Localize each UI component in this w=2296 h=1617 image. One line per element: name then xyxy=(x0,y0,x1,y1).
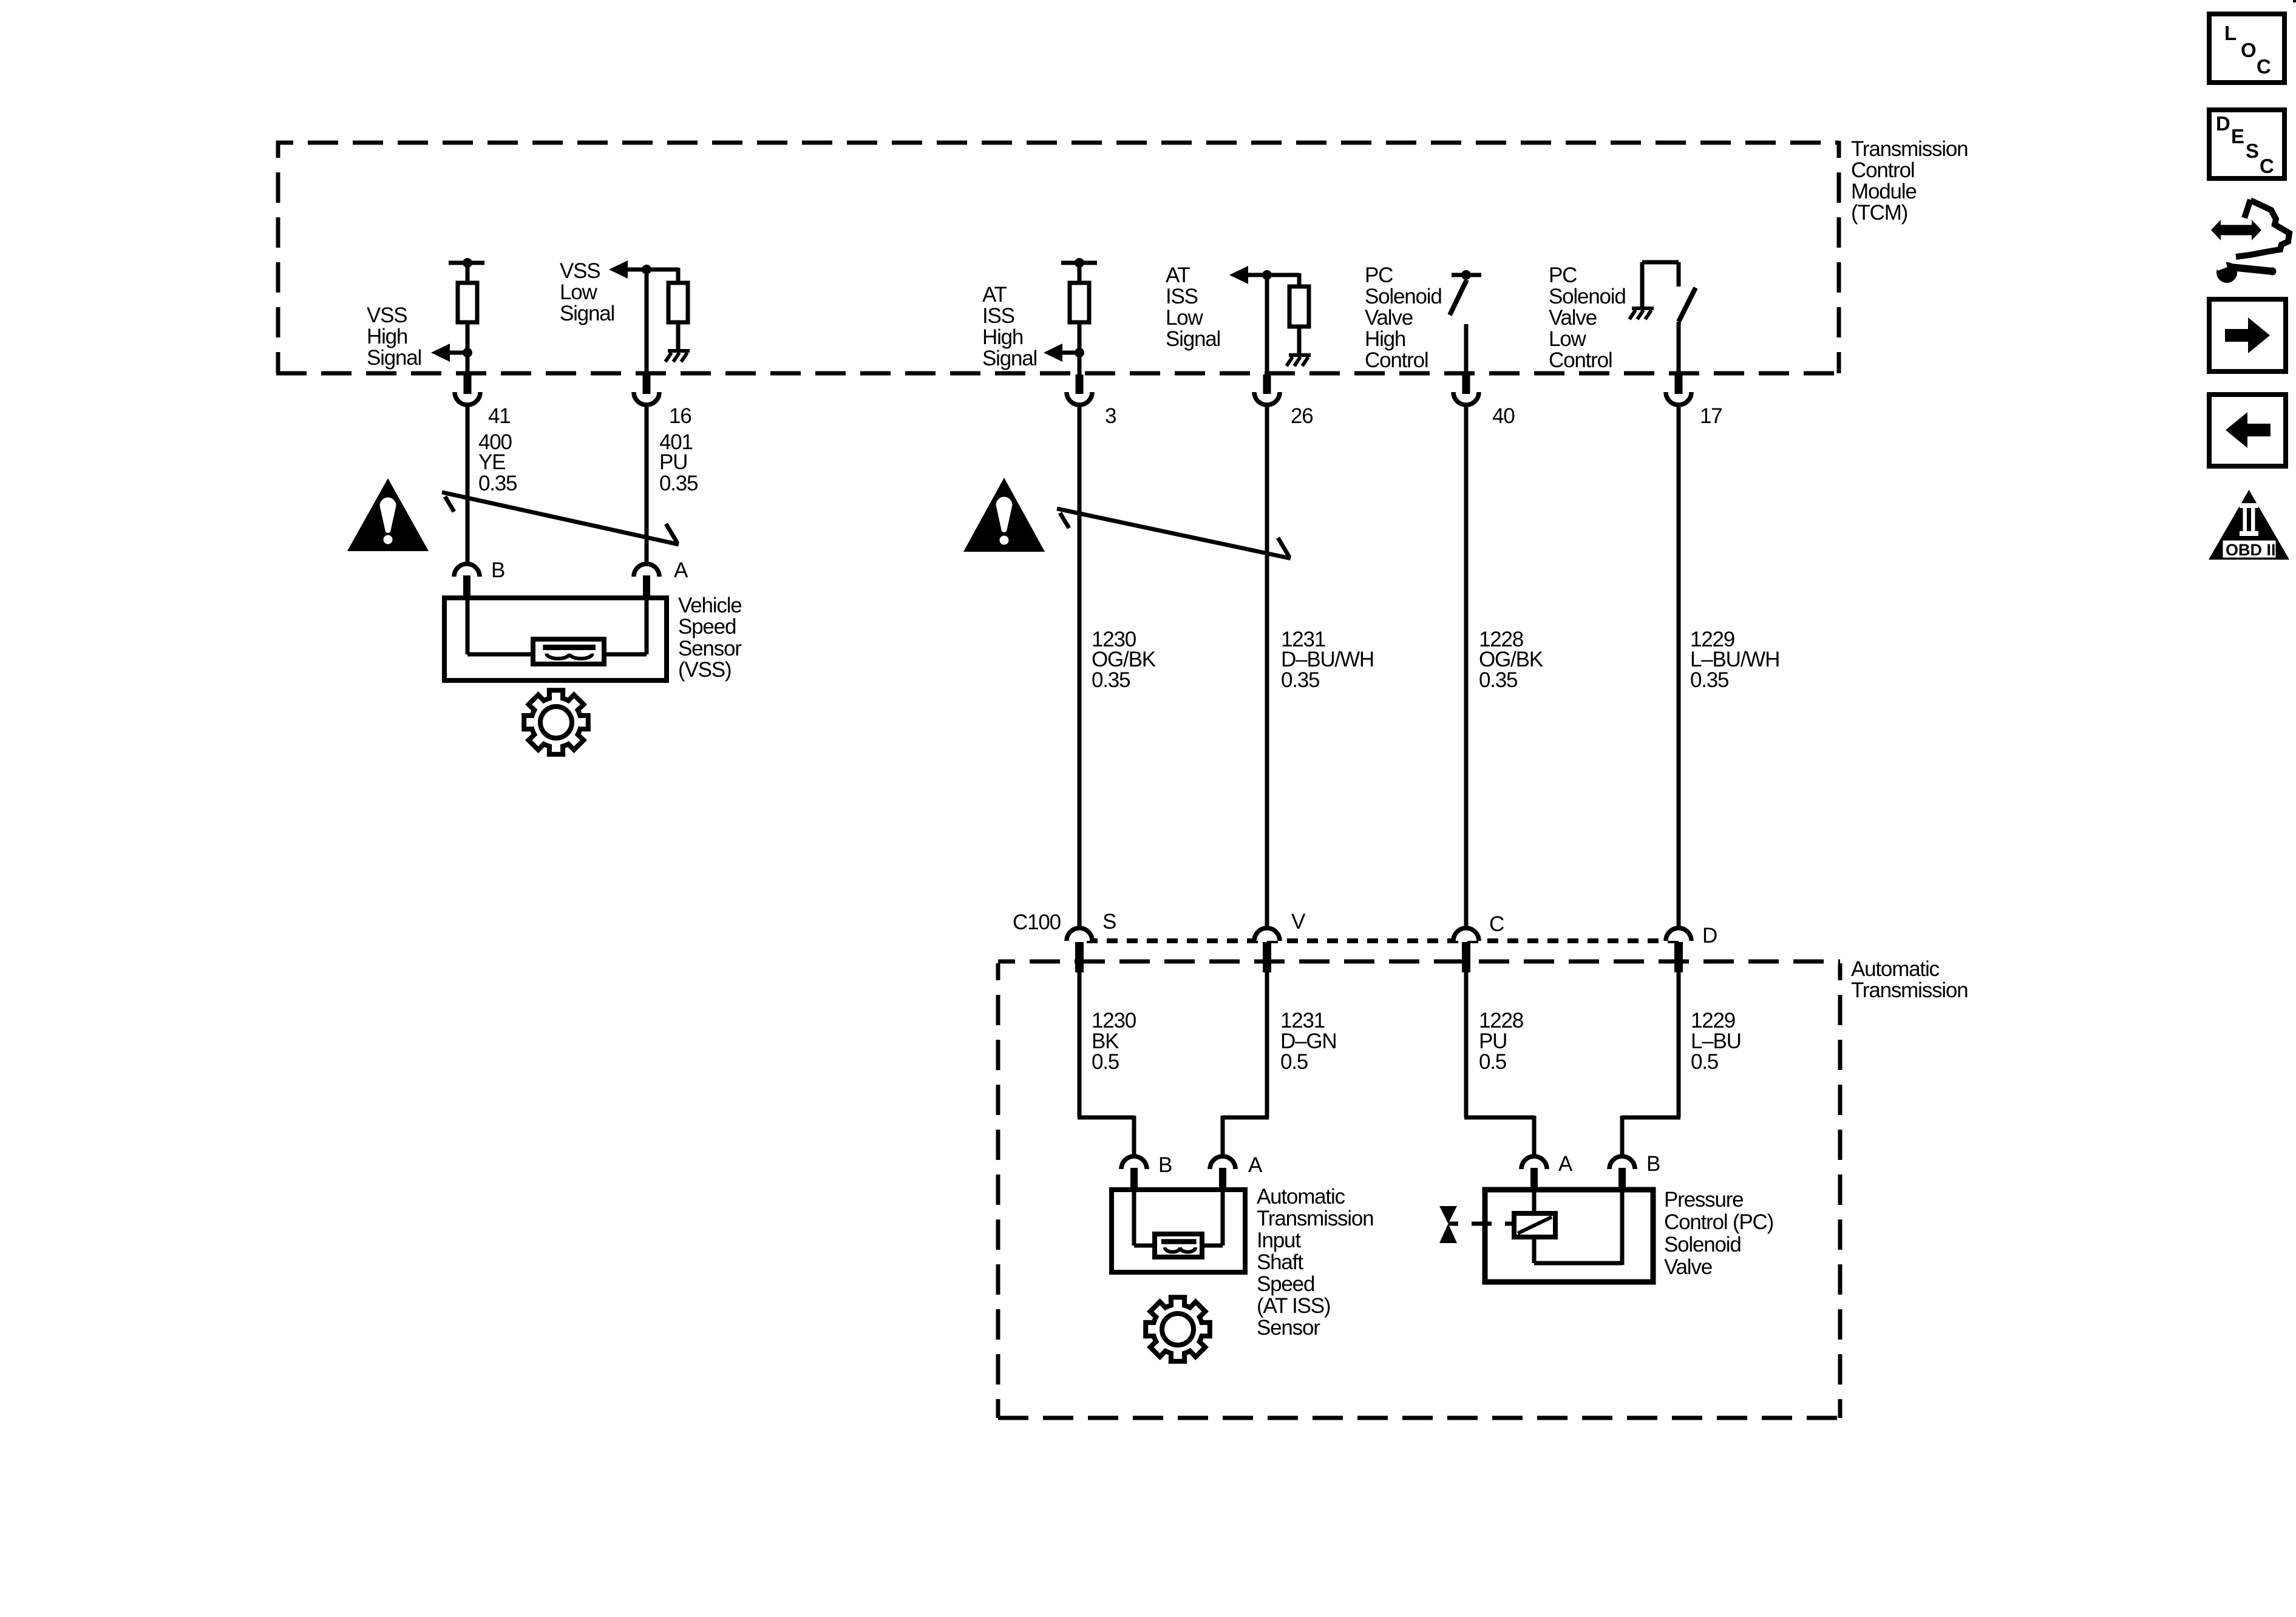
svg-text:Low: Low xyxy=(560,280,598,304)
svg-text:0.35: 0.35 xyxy=(659,472,698,495)
svg-text:Speed: Speed xyxy=(678,615,736,639)
junction dot w3 signal tap xyxy=(1075,348,1084,358)
VSS sensor box xyxy=(444,598,667,680)
wire w1 top to resistor xyxy=(466,263,470,284)
TCM connector pin 17 socket arc xyxy=(1666,392,1691,405)
wire w2 resistor to ground xyxy=(676,322,681,350)
label AT ISS Low Signal xyxy=(1166,263,1220,351)
switch SW2 lever PC Low xyxy=(1679,288,1696,322)
pin number label 16 xyxy=(669,404,691,428)
wire w1 signal tap arrow xyxy=(450,351,467,355)
label PC Solenoid Valve High Control xyxy=(1365,263,1442,372)
svg-text:16: 16 xyxy=(669,404,691,428)
wire w3 resistor to pin 3 xyxy=(1078,322,1082,376)
svg-text:C: C xyxy=(2257,55,2271,78)
svg-text:0.35: 0.35 xyxy=(1092,668,1130,692)
VSS connector pin A bar xyxy=(643,575,650,599)
terminal letter S label xyxy=(1102,910,1116,934)
wire 1229 L-BU/WH run xyxy=(1677,405,1681,929)
wire w6 internal hook xyxy=(1642,262,1679,307)
svg-text:(TCM): (TCM) xyxy=(1851,201,1907,225)
label Automatic Transmission xyxy=(1851,957,1968,1002)
svg-text:VSS: VSS xyxy=(560,259,600,283)
wire w4 arrow to corner xyxy=(1248,273,1299,277)
wire w1 resistor to pin 41 xyxy=(466,322,470,376)
svg-text:Signal: Signal xyxy=(1166,327,1220,351)
PC connector pin B bar xyxy=(1618,1168,1626,1191)
wire w1 internal T-bar xyxy=(449,261,484,265)
VSS reluctor gear icon xyxy=(524,690,588,754)
svg-text:A: A xyxy=(674,558,688,582)
svg-text:High: High xyxy=(1365,327,1405,351)
svg-text:0.35: 0.35 xyxy=(478,472,517,495)
terminal letter C label xyxy=(1489,912,1504,936)
wire 1229 L-BU run xyxy=(1622,972,1680,1156)
AT ISS internal wire pin B drop xyxy=(1134,1192,1156,1246)
wire w5 internal top bar xyxy=(1452,273,1481,277)
pin number label 26 xyxy=(1291,404,1313,428)
wire 1230 OG/BK run xyxy=(1078,405,1082,929)
label circuit 1228 OG/BK 0.35 xyxy=(1479,628,1543,692)
svg-text:Module: Module xyxy=(1851,180,1917,203)
TCM connector pin 41 bar xyxy=(464,375,472,394)
PC internal wire coil to bottom xyxy=(1532,1237,1537,1263)
VSS connector pin B bar xyxy=(463,575,470,599)
label circuit 400 YE 0.35 xyxy=(478,430,517,495)
label Automatic Transmission Input Shaft Speed (AT ISS) Sensor xyxy=(1257,1185,1373,1340)
svg-text:0.35: 0.35 xyxy=(1479,668,1517,692)
junction dot w2 top xyxy=(642,265,651,274)
C100 terminal C socket arc xyxy=(1453,928,1479,941)
pin number label 40 xyxy=(1492,404,1515,428)
svg-text:C100: C100 xyxy=(1013,910,1061,934)
wire 401 PU run xyxy=(645,405,649,563)
resistor R3 AT ISS High xyxy=(1070,283,1089,322)
svg-text:Transmission: Transmission xyxy=(1257,1207,1373,1230)
Automatic Transmission dashed box right edge xyxy=(1838,963,1843,1418)
svg-text:0.35: 0.35 xyxy=(1690,668,1728,692)
svg-text:40: 40 xyxy=(1492,404,1515,428)
wire 1228 PU run xyxy=(1464,972,1534,1156)
svg-text:(VSS): (VSS) xyxy=(678,658,731,682)
AT ISS pickup coil element xyxy=(1155,1234,1202,1257)
TCM connector pin 3 bar xyxy=(1076,375,1084,394)
junction dot w4 top xyxy=(1262,270,1272,280)
Automatic Transmission dashed box left edge xyxy=(996,963,1000,1418)
label circuit 1230 OG/BK 0.35 xyxy=(1092,628,1156,692)
TCM connector pin 26 bar xyxy=(1263,375,1271,394)
svg-text:Low: Low xyxy=(1549,327,1587,351)
junction dot w1 top xyxy=(463,258,472,268)
svg-text:C: C xyxy=(1489,912,1504,936)
svg-text:AT: AT xyxy=(1166,263,1190,287)
icon harness repair wrench xyxy=(2211,200,2289,283)
svg-text:Speed: Speed xyxy=(1257,1272,1314,1296)
wire w2 main vertical xyxy=(645,269,649,376)
svg-text:Low: Low xyxy=(1166,306,1204,330)
C100 terminal D pin bar xyxy=(1674,942,1683,972)
label circuit 1229 L-BU/WH 0.35 xyxy=(1690,628,1779,692)
VSS pickup coil element xyxy=(533,639,604,664)
svg-text:A: A xyxy=(1558,1152,1573,1176)
svg-text:Sensor: Sensor xyxy=(678,637,742,660)
crossed-wires strike 2 xyxy=(1057,509,1291,558)
svg-text:0.35: 0.35 xyxy=(1281,668,1319,692)
PC connector pin A bar xyxy=(1530,1168,1538,1191)
label AT ISS High Signal xyxy=(982,283,1037,370)
TCM connector pin 40 socket arc xyxy=(1453,392,1479,405)
pin number label 41 xyxy=(488,404,511,428)
svg-text:PU: PU xyxy=(659,450,687,474)
wire w4 corner down to resistor xyxy=(1297,273,1302,288)
svg-text:Automatic: Automatic xyxy=(1257,1185,1345,1209)
pin number label 17 xyxy=(1700,404,1722,428)
wire w2 arrow to corner xyxy=(628,268,678,272)
svg-text:Signal: Signal xyxy=(560,302,614,325)
wire 1231 D-BU/WH run xyxy=(1265,405,1269,929)
wire w3 internal T-bar xyxy=(1061,261,1097,265)
wire w5 below switch xyxy=(1464,324,1469,376)
svg-text:Control: Control xyxy=(1365,348,1428,372)
resistor R1 VSS High pull-up xyxy=(458,283,477,322)
icon back arrow box xyxy=(2209,395,2286,466)
svg-text:A: A xyxy=(1248,1153,1263,1177)
AT ISS reluctor gear icon xyxy=(1146,1297,1210,1361)
ground symbol G3 xyxy=(1629,308,1654,319)
svg-text:Control: Control xyxy=(1549,348,1612,372)
Automatic Transmission dashed box top edge xyxy=(998,960,1840,964)
wire w2 corner down to resistor xyxy=(676,268,681,284)
svg-text:C: C xyxy=(2260,155,2274,177)
PC connector pin B socket arc xyxy=(1609,1156,1635,1169)
AT ISS connector pin A bar xyxy=(1219,1168,1226,1191)
arrowhead VSS High Signal xyxy=(431,344,450,362)
wire w3 signal tap arrow xyxy=(1062,351,1079,355)
AT ISS internal wire pin A drop xyxy=(1201,1192,1223,1246)
AT ISS connector pin B bar xyxy=(1130,1168,1138,1191)
svg-text:41: 41 xyxy=(488,404,511,428)
svg-text:Solenoid: Solenoid xyxy=(1549,285,1626,308)
C100 terminal D socket arc xyxy=(1666,928,1691,941)
label VSS High Signal xyxy=(367,303,421,370)
PC connector pin A socket arc xyxy=(1521,1156,1547,1169)
label VSS Low Signal xyxy=(560,259,614,325)
svg-text:Solenoid: Solenoid xyxy=(1664,1233,1741,1256)
svg-text:0.5: 0.5 xyxy=(1479,1050,1506,1074)
wire 400 YE run xyxy=(466,405,470,563)
PC solenoid valve box xyxy=(1485,1190,1653,1282)
label circuit 1231 D-BU/WH 0.35 xyxy=(1281,628,1374,692)
svg-text:Automatic: Automatic xyxy=(1851,957,1940,981)
svg-text:3: 3 xyxy=(1105,404,1116,428)
pin letter A label PC xyxy=(1558,1152,1573,1176)
resistor R2 VSS Low xyxy=(668,283,688,322)
wire 1230 BK run xyxy=(1078,972,1134,1156)
svg-text:Sensor: Sensor xyxy=(1257,1316,1320,1340)
svg-text:D: D xyxy=(2216,112,2230,135)
svg-text:Signal: Signal xyxy=(367,346,421,370)
svg-text:D: D xyxy=(1702,924,1717,947)
wire w6 below switch xyxy=(1677,322,1681,376)
icon DESC navigation box xyxy=(2209,110,2284,178)
TCM connector pin 17 bar xyxy=(1675,375,1683,394)
svg-text:26: 26 xyxy=(1291,404,1313,428)
VSS internal wire pin B drop xyxy=(467,600,534,654)
svg-text:0.5: 0.5 xyxy=(1280,1050,1308,1074)
svg-text:Signal: Signal xyxy=(982,347,1037,370)
arrowhead AT ISS High Signal xyxy=(1044,344,1062,362)
svg-text:Control: Control xyxy=(1851,158,1914,182)
label circuit 1229 L-BU 0.5 xyxy=(1691,1009,1741,1074)
svg-text:VSS: VSS xyxy=(367,303,407,327)
svg-text:YE: YE xyxy=(478,450,505,474)
label circuit 1230 BK 0.5 xyxy=(1092,1009,1136,1074)
svg-text:PC: PC xyxy=(1365,263,1393,287)
svg-text:Vehicle: Vehicle xyxy=(678,594,741,617)
svg-text:Valve: Valve xyxy=(1365,306,1413,330)
icon OBD II triangle xyxy=(2209,490,2289,560)
svg-text:L: L xyxy=(2224,22,2237,44)
switch SW1 lever PC High xyxy=(1450,280,1467,315)
icon LOC navigation box xyxy=(2209,14,2284,83)
junction dot w1 signal tap xyxy=(463,348,472,358)
wire w4 resistor to ground xyxy=(1297,327,1302,354)
TCM connector pin 41 socket arc xyxy=(455,392,480,405)
AT ISS connector pin B socket arc xyxy=(1121,1156,1147,1169)
label Vehicle Speed Sensor (VSS) xyxy=(678,594,742,682)
wire 1228 OG/BK run xyxy=(1464,405,1469,929)
pin letter B label PC xyxy=(1646,1152,1660,1176)
terminal letter D label xyxy=(1702,924,1717,947)
svg-text:High: High xyxy=(367,325,407,348)
C100 terminal S pin bar xyxy=(1075,942,1084,972)
C100 terminal C pin bar xyxy=(1462,942,1470,972)
junction dot w3 top xyxy=(1075,258,1084,268)
svg-text:AT: AT xyxy=(982,283,1007,307)
label circuit 1228 PU 0.5 xyxy=(1479,1009,1523,1074)
pin letter A label VSS xyxy=(674,558,688,582)
Automatic Transmission dashed box bottom edge xyxy=(998,1416,1840,1420)
TCM connector pin 26 socket arc xyxy=(1254,392,1280,405)
icon forward arrow box xyxy=(2209,299,2286,371)
AT ISS sensor box xyxy=(1112,1190,1245,1272)
TCM connector pin 40 bar xyxy=(1462,375,1470,394)
AT ISS connector pin A socket arc xyxy=(1210,1156,1235,1169)
svg-text:0.5: 0.5 xyxy=(1092,1050,1119,1074)
svg-text:B: B xyxy=(491,558,504,582)
arrowhead VSS Low Signal xyxy=(609,260,628,279)
svg-text:E: E xyxy=(2231,125,2244,147)
warning triangle 2 xyxy=(963,478,1045,552)
label circuit 401 PU 0.35 xyxy=(659,430,698,495)
terminal letter V label xyxy=(1291,910,1306,934)
label PC Solenoid Valve Low Control xyxy=(1549,263,1626,372)
label C100 xyxy=(1013,910,1061,934)
resistor R4 AT ISS Low xyxy=(1289,286,1309,327)
label Transmission Control Module (TCM) xyxy=(1851,137,1968,225)
svg-text:Shaft: Shaft xyxy=(1257,1250,1303,1274)
TCM module dashed box right edge xyxy=(1837,141,1841,373)
svg-text:S: S xyxy=(1102,910,1116,934)
wire 1231 D-GN run xyxy=(1223,972,1269,1156)
svg-text:PC: PC xyxy=(1549,263,1577,287)
hydraulic valve bowtie symbol xyxy=(1439,1206,1458,1243)
svg-text:Control (PC): Control (PC) xyxy=(1664,1210,1773,1234)
page corner crop mark xyxy=(2293,0,2296,2)
hydraulic line dashes through PC box wall xyxy=(1472,1222,1515,1226)
label Pressure Control (PC) Solenoid Valve xyxy=(1664,1188,1773,1279)
C100 terminal V pin bar xyxy=(1263,942,1271,972)
svg-text:Transmission: Transmission xyxy=(1851,137,1968,161)
PC internal wire pin A drop xyxy=(1532,1192,1537,1215)
VSS internal wire pin A drop xyxy=(603,600,647,654)
svg-text:OBD II: OBD II xyxy=(2226,541,2276,559)
VSS connector pin B socket arc xyxy=(454,564,480,577)
wire w3 top to resistor xyxy=(1078,263,1082,284)
solenoid coil L1 with diagonal xyxy=(1514,1213,1555,1237)
TCM module dashed box bottom edge xyxy=(276,371,1839,376)
C100 terminal V socket arc xyxy=(1254,928,1280,941)
ground symbol G2 xyxy=(1286,355,1311,366)
svg-text:ISS: ISS xyxy=(982,304,1014,328)
TCM connector pin 16 bar xyxy=(643,375,651,394)
svg-text:Input: Input xyxy=(1257,1229,1301,1252)
svg-text:0.5: 0.5 xyxy=(1691,1050,1718,1074)
TCM connector pin 16 socket arc xyxy=(634,392,659,405)
C100 inline connector dotted line xyxy=(1087,938,1682,943)
VSS connector pin A socket arc xyxy=(634,564,659,577)
svg-text:B: B xyxy=(1158,1153,1172,1177)
ground symbol G1 xyxy=(665,351,690,362)
pin letter B label VSS xyxy=(491,558,504,582)
svg-text:Transmission: Transmission xyxy=(1851,978,1968,1002)
svg-text:High: High xyxy=(982,325,1023,349)
svg-text:Valve: Valve xyxy=(1549,306,1597,330)
crossed-wires strike 1 xyxy=(442,492,679,544)
arrowhead AT ISS Low Signal xyxy=(1229,266,1248,284)
svg-text:Pressure: Pressure xyxy=(1664,1188,1743,1212)
junction dot w5 top xyxy=(1461,270,1471,280)
svg-text:Solenoid: Solenoid xyxy=(1365,285,1442,308)
pin number label 3 xyxy=(1105,404,1116,428)
pin letter B label AT ISS xyxy=(1158,1153,1172,1177)
svg-text:V: V xyxy=(1291,910,1306,934)
TCM module dashed box top edge xyxy=(276,141,1839,145)
svg-text:S: S xyxy=(2246,140,2258,162)
svg-text:B: B xyxy=(1646,1152,1660,1176)
pin letter A label AT ISS xyxy=(1248,1153,1263,1177)
TCM module dashed box left edge xyxy=(276,141,280,373)
TCM connector pin 3 socket arc xyxy=(1067,392,1092,405)
svg-text:(AT ISS): (AT ISS) xyxy=(1257,1294,1330,1318)
svg-text:17: 17 xyxy=(1700,404,1722,428)
svg-text:O: O xyxy=(2241,39,2256,61)
warning triangle 1 xyxy=(347,478,429,551)
C100 terminal S socket arc xyxy=(1067,928,1092,941)
PC internal wire bottom horizontal xyxy=(1534,1261,1622,1266)
svg-text:Valve: Valve xyxy=(1664,1255,1712,1279)
PC internal wire pin B drop xyxy=(1620,1192,1625,1265)
label circuit 1231 D-GN 0.5 xyxy=(1280,1009,1336,1074)
svg-text:ISS: ISS xyxy=(1166,285,1198,308)
wire w4 main vertical xyxy=(1265,275,1269,376)
